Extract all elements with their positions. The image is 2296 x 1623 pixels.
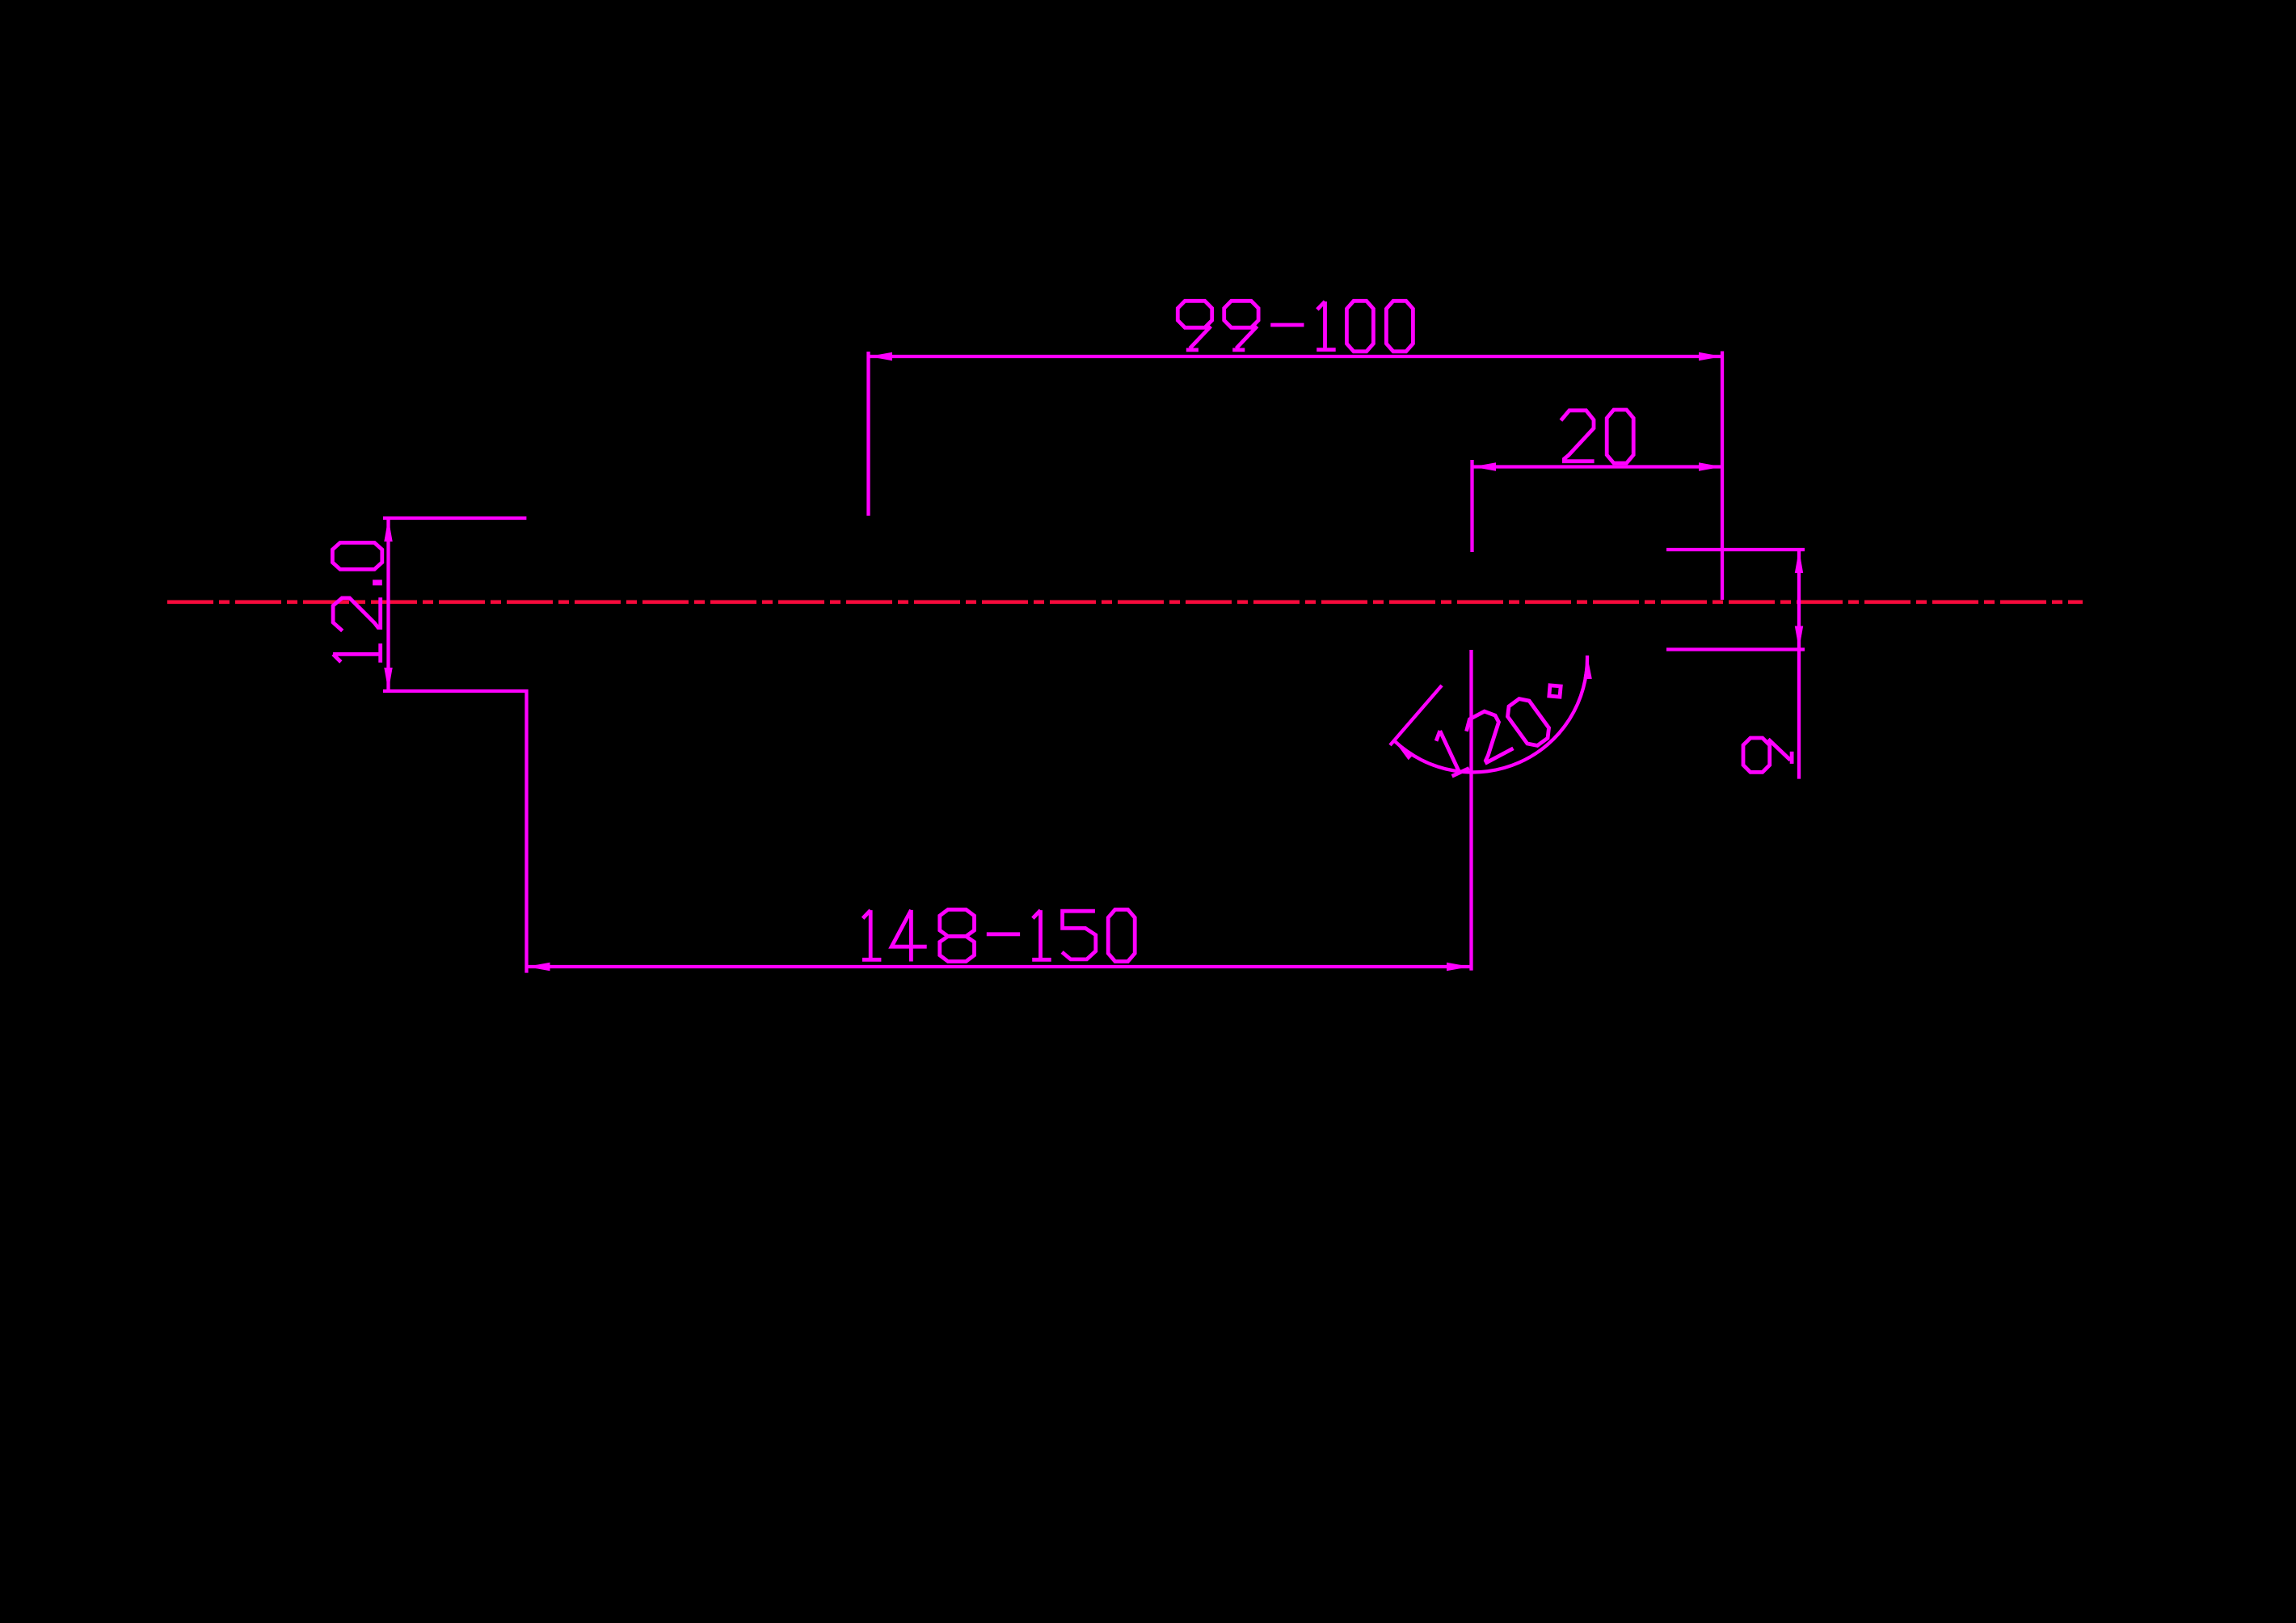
- angular dimension arc 120deg: [1394, 656, 1587, 772]
- dimension line 99-100: [869, 355, 1722, 358]
- angle leg / 148-150 right extension line (vertical): [1469, 650, 1472, 971]
- extension line right (shared by 99-100 and 20 dims): [1721, 352, 1724, 601]
- dimension line 9 (vertical, right): [1797, 550, 1801, 779]
- dimension line 20: [1472, 465, 1722, 468]
- extension line left of 20 dim: [1470, 460, 1473, 552]
- dimension text 120deg: [1432, 681, 1565, 776]
- part edge: right stub bottom: [1666, 647, 1805, 651]
- dimension text 12.0: [332, 542, 381, 662]
- arc arrowhead left (points up-left): [1394, 741, 1414, 761]
- dimension line 12.0 (vertical, left): [386, 518, 390, 691]
- part edge: right stub top: [1666, 548, 1805, 551]
- extension line left of 99-100 dim: [866, 352, 870, 516]
- dimension line 148-150: [527, 965, 1471, 968]
- dimension text 20: [1561, 410, 1633, 463]
- dimension text 148-150: [862, 909, 1135, 961]
- dimension text 99-100: [1177, 301, 1413, 352]
- part edge: bottom-left step with corner: [383, 691, 527, 973]
- centerline (red dash-dot axis): [167, 600, 2083, 604]
- part edge: top-left step: [383, 516, 526, 520]
- dimension text 9: [1743, 738, 1792, 772]
- arc arrowhead right (points up): [1583, 656, 1591, 679]
- angle leg (slanted chamfer line): [1390, 685, 1442, 745]
